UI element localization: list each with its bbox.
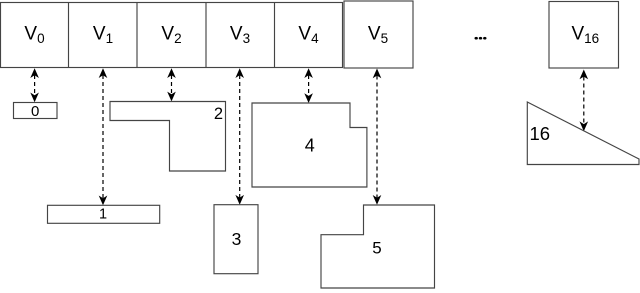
svg-text:V1: V1 bbox=[93, 24, 113, 47]
block 3 bbox=[214, 205, 258, 274]
svg-text:16: 16 bbox=[530, 123, 551, 144]
box V5 bbox=[344, 1, 413, 68]
array box V0-V4 bbox=[1, 3, 343, 68]
arrow 5 bbox=[373, 69, 382, 205]
arrow 3 bbox=[235, 68, 244, 205]
block 1 bbox=[48, 205, 160, 223]
box V16 bbox=[549, 2, 619, 69]
arrow 0 bbox=[30, 68, 39, 102]
block 0 bbox=[14, 103, 58, 119]
ellipsis dots bbox=[475, 37, 478, 40]
svg-text:V3: V3 bbox=[230, 24, 250, 47]
arrow 16 bbox=[580, 70, 589, 132]
arrow 4 bbox=[304, 68, 313, 103]
divider V3|V4 bbox=[274, 3, 276, 68]
divider V2|V3 bbox=[205, 3, 207, 68]
svg-text:1: 1 bbox=[99, 207, 107, 223]
block 16 (triangle) bbox=[527, 102, 639, 165]
arrow 2 bbox=[167, 68, 176, 101]
block 5 (notched rect) bbox=[321, 205, 435, 288]
block 4 (notched rect) bbox=[252, 103, 367, 187]
svg-text:4: 4 bbox=[305, 136, 315, 156]
arrow 1 bbox=[99, 68, 108, 205]
svg-text:3: 3 bbox=[232, 229, 242, 249]
block 2 (L-shape) bbox=[110, 102, 226, 172]
svg-text:0: 0 bbox=[31, 103, 39, 120]
svg-text:V0: V0 bbox=[24, 24, 44, 47]
svg-text:V5: V5 bbox=[368, 24, 388, 47]
svg-text:V4: V4 bbox=[298, 24, 319, 47]
svg-text:5: 5 bbox=[372, 239, 381, 258]
divider V0|V1 bbox=[68, 3, 70, 68]
divider V1|V2 bbox=[136, 3, 138, 68]
svg-text:V16: V16 bbox=[571, 24, 599, 47]
svg-text:V2: V2 bbox=[161, 24, 181, 47]
svg-text:2: 2 bbox=[214, 105, 223, 123]
